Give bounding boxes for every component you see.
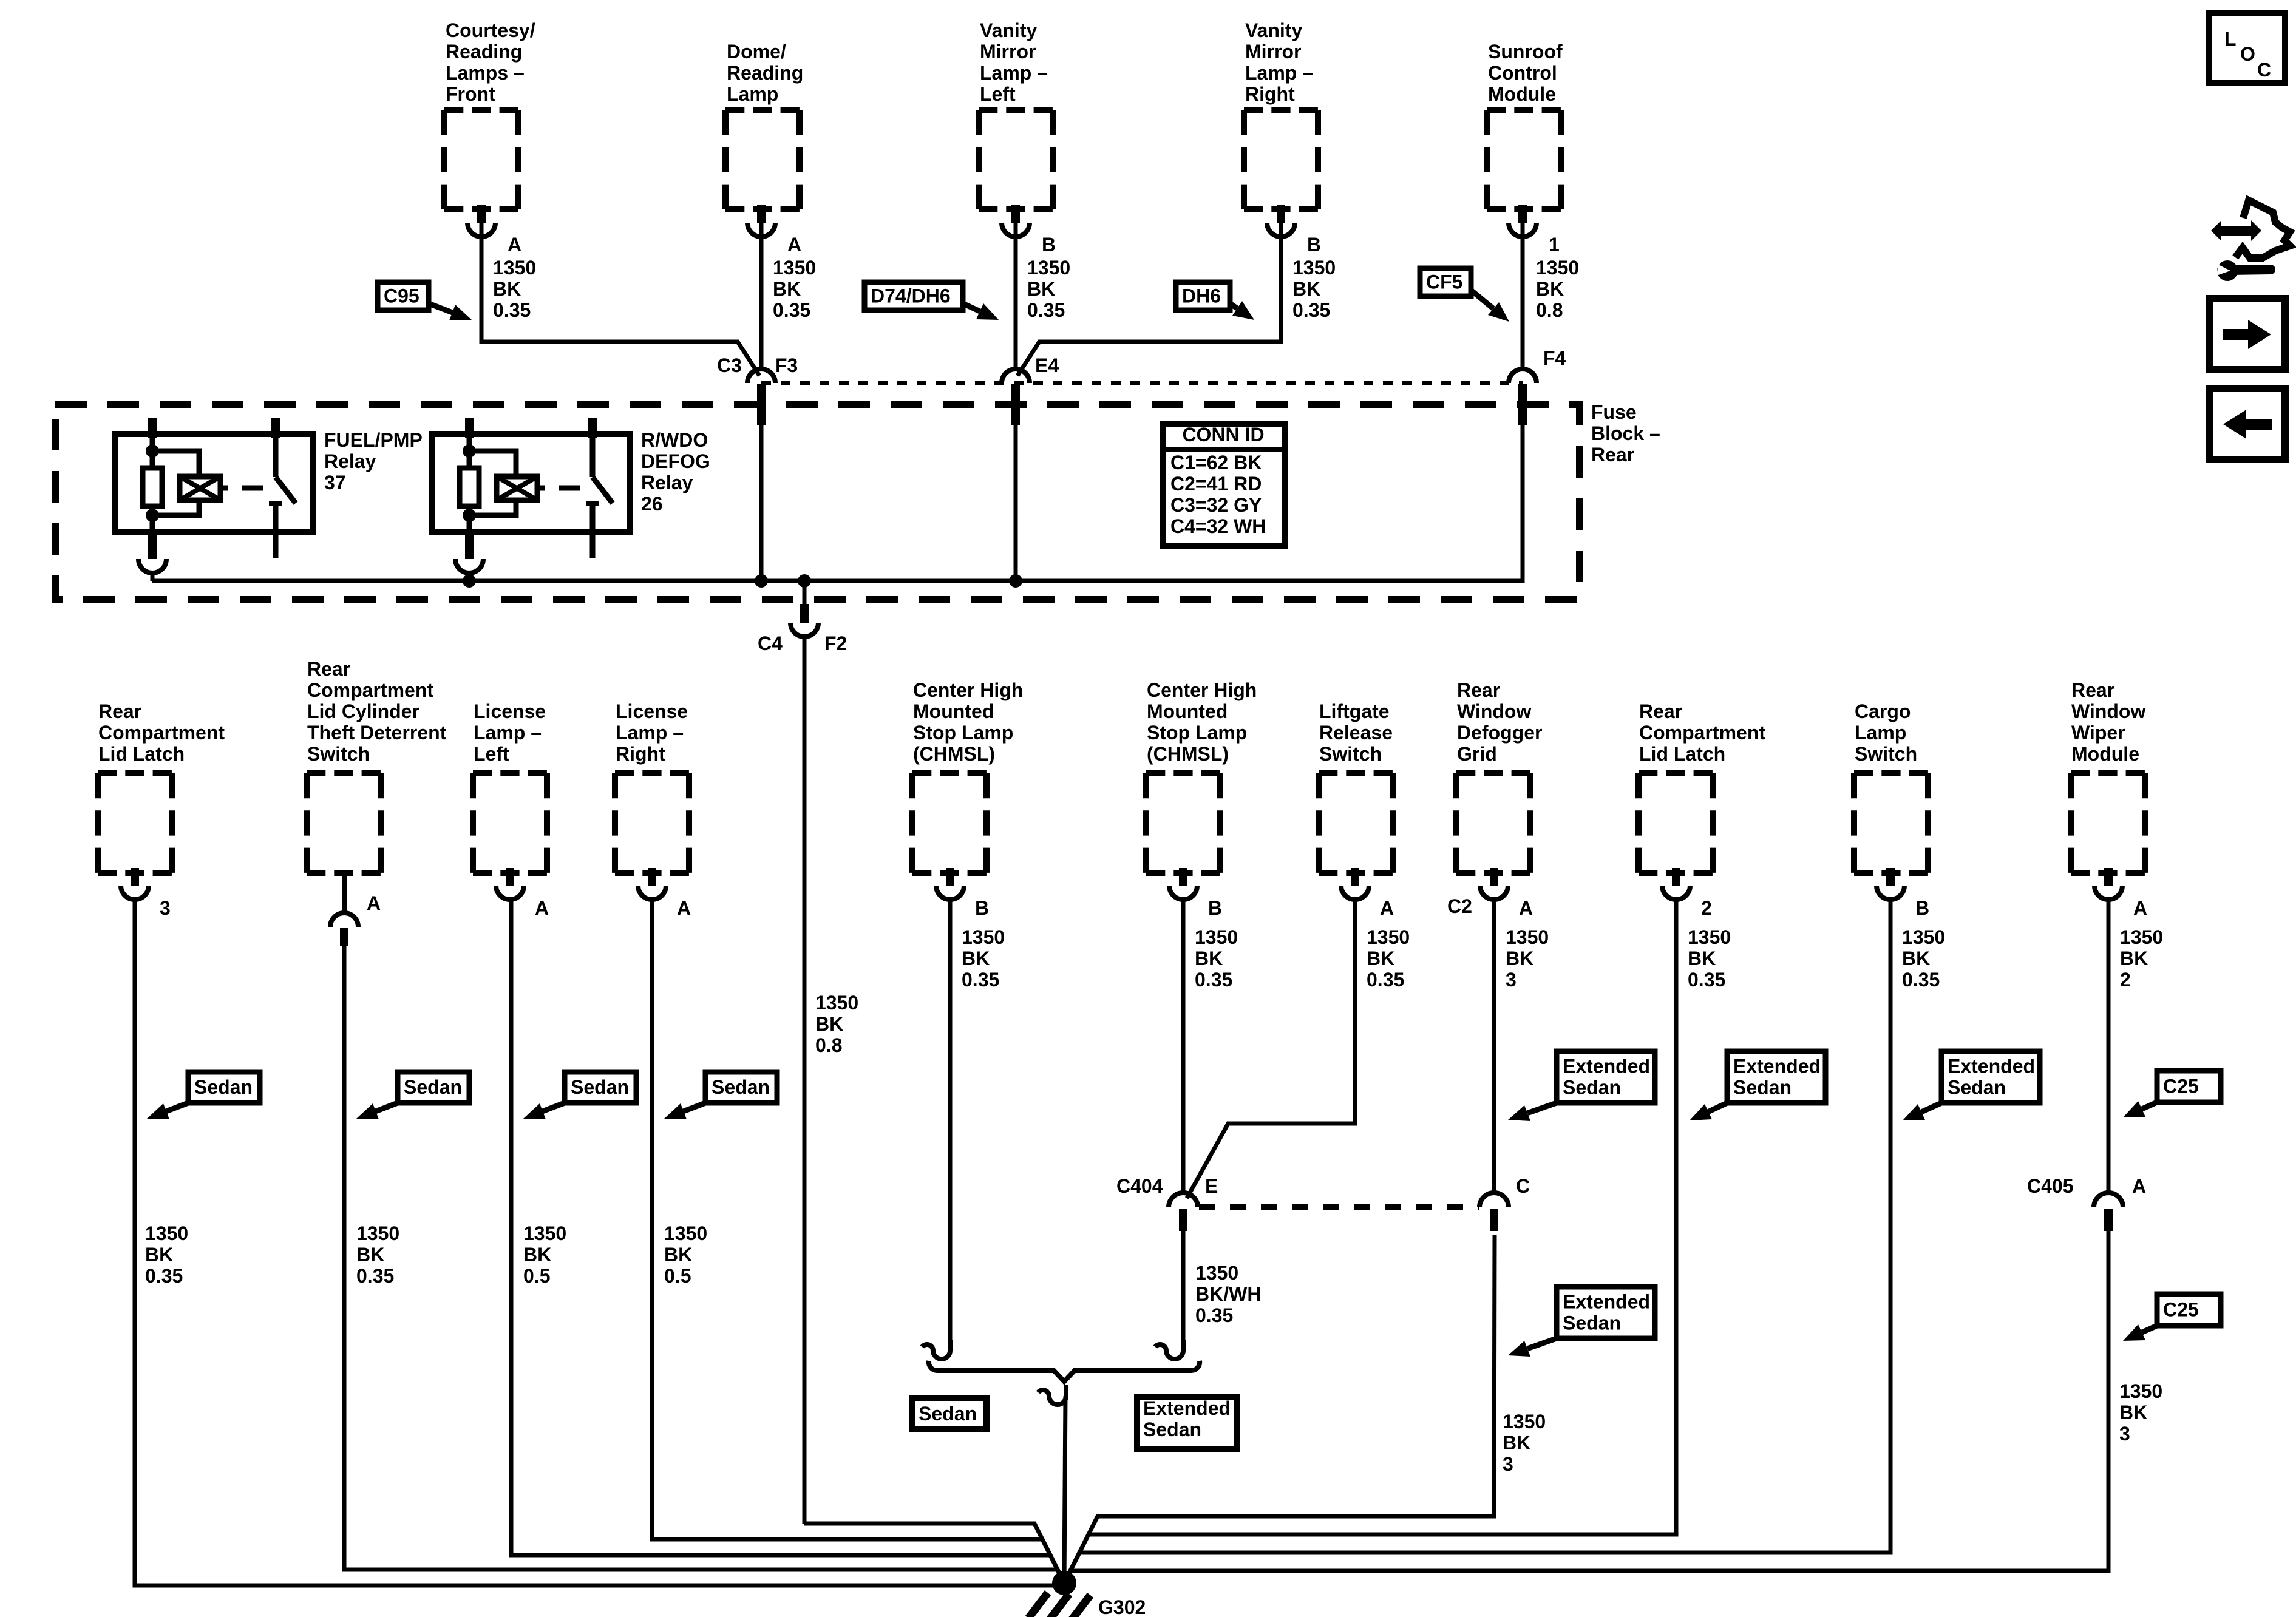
svg-text:3: 3 <box>1506 969 1517 991</box>
label 1350 BK 0.8 <box>815 992 858 1056</box>
splice pigtail BK/WH <box>1155 1340 1183 1359</box>
label C <box>1516 1175 1530 1197</box>
svg-text:3: 3 <box>2119 1423 2130 1445</box>
coil-switch dash of R/WDO DEFOG <box>559 486 580 491</box>
svg-text:Defogger: Defogger <box>1457 722 1542 744</box>
svg-text:Vanity: Vanity <box>1245 19 1302 41</box>
callout Extended Sedan <box>1508 1051 1655 1121</box>
svg-text:26: 26 <box>641 493 663 515</box>
label E4 <box>1035 354 1059 376</box>
svg-text:Extended: Extended <box>1563 1056 1650 1077</box>
svg-text:A: A <box>677 897 691 919</box>
icon LOC box <box>2209 13 2285 83</box>
svg-text:(CHMSL): (CHMSL) <box>913 743 995 765</box>
callout C25 <box>2123 1294 2221 1341</box>
svg-text:Lid Cylinder: Lid Cylinder <box>307 700 419 722</box>
connector pin 3 of Rear Compartment Lid Latch <box>121 868 149 900</box>
connector bail of R/WDO DEFOG relay <box>455 532 483 581</box>
svg-text:BK: BK <box>773 278 801 300</box>
component Rear Compartment Lid Latch 2 <box>1639 773 1713 873</box>
label 1350 BK 3 <box>2119 1380 2162 1445</box>
label C3 <box>717 354 742 376</box>
icon prev-page arrow box <box>2209 388 2285 459</box>
svg-text:Rear: Rear <box>307 658 350 680</box>
svg-text:0.35: 0.35 <box>1688 969 1725 991</box>
connector bail of FUEL/PMP relay <box>138 532 166 581</box>
connector pin A of Liftgate Release Switch <box>1341 868 1369 900</box>
label Rear Window Wiper Module <box>2071 679 2145 765</box>
svg-text:BK: BK <box>1688 947 1716 969</box>
svg-text:BK: BK <box>664 1244 692 1266</box>
svg-text:BK: BK <box>1506 947 1533 969</box>
svg-text:Extended: Extended <box>1143 1397 1231 1419</box>
component Sunroof Control Module <box>1487 110 1561 209</box>
svg-text:BK: BK <box>2120 947 2148 969</box>
connector C404 E <box>1169 1193 1198 1231</box>
svg-text:Sedan: Sedan <box>1733 1077 1792 1099</box>
label C2 <box>1447 895 1472 917</box>
svg-text:Compartment: Compartment <box>1639 722 1765 744</box>
label wire 1350 BK <box>1688 926 1731 991</box>
svg-text:L: L <box>2224 28 2237 50</box>
svg-text:Lamp: Lamp <box>1855 722 1906 744</box>
svg-text:1350: 1350 <box>1503 1411 1546 1432</box>
svg-text:Mounted: Mounted <box>1147 700 1228 722</box>
junction dot FUEL/PMP bottom <box>146 509 159 522</box>
svg-text:Sedan: Sedan <box>1143 1419 1201 1440</box>
svg-text:Stop Lamp: Stop Lamp <box>913 722 1013 744</box>
svg-text:0.35: 0.35 <box>962 969 999 991</box>
junction dot at R/WDO bail <box>463 574 476 588</box>
svg-text:DH6: DH6 <box>1182 285 1221 307</box>
svg-text:Right: Right <box>1245 83 1295 105</box>
label pin B <box>1208 897 1222 919</box>
svg-text:BK: BK <box>1503 1432 1530 1454</box>
label wire 1350 BK <box>145 1222 188 1287</box>
connector pin A of Dome/Reading Lamp <box>747 205 775 237</box>
svg-text:1350: 1350 <box>962 926 1005 948</box>
label Fuse Block - Rear <box>1591 401 1660 466</box>
svg-text:A: A <box>535 897 549 919</box>
svg-text:1350: 1350 <box>356 1222 399 1244</box>
label F3 <box>775 354 798 376</box>
label F2 <box>824 632 847 654</box>
callout Extended Sedan <box>1690 1051 1826 1120</box>
svg-text:0.35: 0.35 <box>773 299 810 321</box>
svg-text:BK: BK <box>1536 278 1564 300</box>
svg-text:Rear: Rear <box>1591 444 1634 466</box>
coil of FUEL/PMP relay <box>180 476 228 500</box>
table CONN ID box <box>1163 424 1285 546</box>
svg-text:1350: 1350 <box>1027 257 1070 279</box>
wire Defogger A to C <box>1492 898 1496 1194</box>
connector pin A of Rear Compartment Lid Cylinder Theft Deterrent Switch <box>330 913 358 946</box>
svg-text:0.35: 0.35 <box>1195 1304 1233 1326</box>
svg-text:Lamp: Lamp <box>727 83 778 105</box>
connector pin 2 of Rear Compartment Lid Latch 2 <box>1662 868 1690 900</box>
svg-text:37: 37 <box>324 472 346 493</box>
svg-text:Sedan: Sedan <box>194 1076 253 1098</box>
svg-text:3: 3 <box>1503 1453 1513 1475</box>
svg-text:1350: 1350 <box>493 257 536 279</box>
svg-text:0.35: 0.35 <box>1367 969 1404 991</box>
svg-text:BK: BK <box>2119 1402 2147 1423</box>
label wire 1350 BK <box>1292 257 1336 321</box>
label C404 <box>1116 1175 1163 1197</box>
svg-text:Lamp –: Lamp – <box>616 722 684 744</box>
wire CHMSL sedan B down <box>948 898 953 1340</box>
brace sedan/extended sedan <box>929 1361 1200 1381</box>
relay R/WDO DEFOG coil-side pin <box>465 418 474 438</box>
label wire 1350 BK <box>1506 926 1549 991</box>
label Cargo Lamp Switch <box>1855 700 1917 765</box>
label wire 1350 BK <box>1027 257 1070 321</box>
connector pin B of Vanity Mirror Lamp - Left <box>1002 205 1030 237</box>
svg-text:0.35: 0.35 <box>1902 969 1940 991</box>
component Dome/Reading Lamp <box>725 110 800 209</box>
svg-text:C404: C404 <box>1116 1175 1163 1197</box>
svg-text:Dome/: Dome/ <box>727 41 786 63</box>
svg-text:Compartment: Compartment <box>307 679 433 701</box>
component License Lamp - Right <box>615 773 689 873</box>
wire Liftgate A to C404 E <box>1187 898 1355 1198</box>
svg-text:Left: Left <box>474 743 509 765</box>
svg-text:CF5: CF5 <box>1426 271 1462 293</box>
svg-text:Compartment: Compartment <box>98 722 225 744</box>
coil branch of R/WDO DEFOG <box>469 451 516 515</box>
svg-text:0.35: 0.35 <box>356 1265 394 1287</box>
connector C4/F2 <box>790 581 818 643</box>
svg-text:1350: 1350 <box>815 992 858 1014</box>
wire Wiper A to C405 <box>2107 898 2111 1194</box>
wire Dome lamp A to F3 <box>759 223 764 371</box>
svg-text:BK: BK <box>815 1013 843 1035</box>
coil-switch dash of FUEL/PMP <box>242 486 263 491</box>
svg-text:C2: C2 <box>1447 895 1472 917</box>
svg-text:Extended: Extended <box>1733 1056 1821 1077</box>
label wire 1350 BK <box>1195 926 1238 991</box>
svg-text:B: B <box>1042 234 1056 256</box>
svg-text:Sedan: Sedan <box>1948 1077 2006 1099</box>
svg-text:Cargo: Cargo <box>1855 700 1911 722</box>
svg-text:Switch: Switch <box>307 743 370 765</box>
svg-text:A: A <box>787 234 801 256</box>
svg-text:1350: 1350 <box>1367 926 1410 948</box>
icon diagnostic outline <box>2235 200 2290 258</box>
label pin B <box>1307 234 1321 256</box>
wire Lid Latch 2 to G302 <box>1064 898 1676 1583</box>
label E <box>1205 1175 1218 1197</box>
svg-text:0.35: 0.35 <box>493 299 531 321</box>
junction dot at F3 drop <box>755 574 768 588</box>
label Courtesy/Reading Lamps - Front <box>446 19 535 105</box>
svg-text:Lid Latch: Lid Latch <box>98 743 185 765</box>
wire Rear Compartment Lid Cylinder Theft Deterrent Switch to connector <box>342 873 347 913</box>
svg-text:Liftgate: Liftgate <box>1319 700 1390 722</box>
callout D74/DH6 <box>864 282 999 320</box>
icon next-page arrow box <box>2209 299 2285 370</box>
component Rear Compartment Lid Latch <box>98 773 172 873</box>
junction dot R/WDO DEFOG bottom <box>463 509 476 522</box>
svg-text:C: C <box>1516 1175 1530 1197</box>
label License Lamp - Right <box>616 700 688 765</box>
label wire 1350 BK <box>773 257 816 321</box>
connector pin B of Cargo Lamp Switch <box>1877 868 1904 900</box>
wire Cargo Lamp B to G302 <box>1064 898 1890 1583</box>
label wire 1350 BK <box>523 1222 566 1287</box>
component Courtesy/Reading Lamps - Front <box>444 110 518 209</box>
svg-text:B: B <box>1208 897 1222 919</box>
svg-text:Mounted: Mounted <box>913 700 994 722</box>
label wire 1350 BK <box>1902 926 1945 991</box>
coil branch of FUEL/PMP <box>152 451 199 515</box>
connector C405 A <box>2094 1193 2123 1231</box>
svg-text:Left: Left <box>980 83 1016 105</box>
svg-text:0.35: 0.35 <box>1027 299 1065 321</box>
component Cargo Lamp Switch <box>1854 773 1928 873</box>
resistor of R/WDO DEFOG relay <box>460 468 479 506</box>
svg-text:F3: F3 <box>775 354 798 376</box>
svg-text:0.35: 0.35 <box>1195 969 1232 991</box>
svg-text:C3=32 GY: C3=32 GY <box>1170 494 1262 516</box>
label pin A <box>1380 897 1394 919</box>
connector pin A of Rear Window Wiper Module <box>2094 868 2122 900</box>
label pin A <box>677 897 691 919</box>
svg-text:Module: Module <box>2071 743 2139 765</box>
svg-text:Lid Latch: Lid Latch <box>1639 743 1725 765</box>
component Liftgate Release Switch <box>1319 773 1393 873</box>
ground G302 node <box>1052 1571 1076 1595</box>
callout Sedan <box>356 1072 469 1119</box>
connector C404 C <box>1479 1193 1509 1231</box>
svg-text:Sedan: Sedan <box>919 1403 977 1425</box>
svg-text:Sunroof: Sunroof <box>1488 41 1563 63</box>
svg-text:C2=41 RD: C2=41 RD <box>1170 473 1262 495</box>
svg-text:BK: BK <box>145 1244 173 1266</box>
wire Wiper C405 to G302 <box>1064 1231 2108 1583</box>
svg-text:1350: 1350 <box>523 1222 566 1244</box>
svg-text:CONN ID: CONN ID <box>1182 424 1264 446</box>
svg-text:C405: C405 <box>2027 1175 2074 1197</box>
svg-text:Reading: Reading <box>727 62 803 84</box>
label wire 1350 BK <box>493 257 536 321</box>
svg-text:A: A <box>2133 897 2147 919</box>
wire F2 down <box>803 643 807 1524</box>
svg-text:Sedan: Sedan <box>1563 1312 1621 1334</box>
label 1350 BK/WH 0.35 <box>1195 1262 1261 1326</box>
splice pigtail CHMSL sedan <box>922 1340 950 1359</box>
svg-text:BK/WH: BK/WH <box>1195 1283 1261 1305</box>
wire C404 E down (BK/WH) <box>1181 1231 1186 1340</box>
label Liftgate Release Switch <box>1319 700 1393 765</box>
label pin A <box>2133 897 2147 919</box>
label Rear Compartment Lid Cylinder Theft Deterrent Switch <box>307 658 447 765</box>
label pin A <box>367 892 381 914</box>
junction dot at F2 drop <box>798 574 811 588</box>
svg-text:Control: Control <box>1488 62 1557 84</box>
connector pin B of Center High Mounted Stop Lamp (CHMSL) sedan <box>936 868 964 900</box>
label wire 1350 BK <box>1367 926 1410 991</box>
junction dot R/WDO DEFOG top <box>463 444 476 458</box>
svg-text:1350: 1350 <box>145 1222 188 1244</box>
label Sunroof Control Module <box>1488 41 1563 105</box>
svg-text:Lamp –: Lamp – <box>474 722 542 744</box>
svg-text:BK: BK <box>356 1244 384 1266</box>
svg-text:(CHMSL): (CHMSL) <box>1147 743 1229 765</box>
fuse block - rear outline <box>55 404 1580 600</box>
label pin A <box>1519 897 1533 919</box>
connector pin B of Vanity Mirror Lamp - Right <box>1267 205 1295 237</box>
svg-text:1350: 1350 <box>1195 1262 1238 1284</box>
svg-text:BK: BK <box>1195 947 1223 969</box>
label Dome/Reading Lamp <box>727 41 803 105</box>
svg-text:Vanity: Vanity <box>980 19 1037 41</box>
svg-text:E4: E4 <box>1035 354 1059 376</box>
svg-text:R/WDO: R/WDO <box>641 429 708 451</box>
bus dotted connector row <box>761 381 1523 385</box>
svg-text:Right: Right <box>616 743 665 765</box>
svg-text:FUEL/PMP: FUEL/PMP <box>324 429 423 451</box>
label C405 <box>2027 1175 2074 1197</box>
svg-text:0.35: 0.35 <box>145 1265 183 1287</box>
svg-text:B: B <box>1307 234 1321 256</box>
callout DH6 <box>1176 282 1254 320</box>
svg-text:A: A <box>1519 897 1533 919</box>
label Center High Mounted Stop Lamp (CHMSL) extended sedan <box>1147 679 1257 765</box>
wire Vanity right B to E4 <box>1017 223 1281 376</box>
connector pin A of License Lamp - Right <box>638 868 666 900</box>
svg-text:Block –: Block – <box>1591 422 1660 444</box>
svg-text:Reading: Reading <box>446 41 522 63</box>
svg-text:A: A <box>2132 1175 2146 1197</box>
relay FUEL/PMP coil conductor <box>150 434 155 532</box>
connector F4 fuse block entry <box>1509 369 1537 425</box>
svg-text:B: B <box>1915 897 1929 919</box>
svg-text:A: A <box>508 234 521 256</box>
svg-text:1350: 1350 <box>1292 257 1336 279</box>
relay FUEL/PMP coil-side pin <box>148 418 157 438</box>
svg-text:Lamps –: Lamps – <box>446 62 525 84</box>
svg-text:BK: BK <box>1902 947 1930 969</box>
svg-text:C1=62 BK: C1=62 BK <box>1170 452 1262 473</box>
label G302 <box>1098 1596 1146 1617</box>
svg-text:C3: C3 <box>717 354 742 376</box>
label FUEL/PMP Relay 37 <box>324 429 423 493</box>
svg-text:C4: C4 <box>758 632 783 654</box>
label wire 1350 BK <box>2120 926 2163 991</box>
label pin B <box>975 897 989 919</box>
svg-text:BK: BK <box>962 947 990 969</box>
label pin 3 <box>160 897 171 919</box>
connector F3 fuse block entry <box>747 369 775 425</box>
ground G302 hatching <box>1028 1593 1090 1617</box>
connector pin 1 of Sunroof Control Module <box>1509 205 1537 237</box>
svg-text:0.8: 0.8 <box>1536 299 1563 321</box>
wire Theft Deterrent A to G302 <box>344 946 1064 1583</box>
svg-text:Center High: Center High <box>1147 679 1257 701</box>
svg-text:1350: 1350 <box>773 257 816 279</box>
svg-text:1350: 1350 <box>2120 926 2163 948</box>
svg-text:Module: Module <box>1488 83 1556 105</box>
svg-text:Front: Front <box>446 83 495 105</box>
svg-text:Sedan: Sedan <box>712 1076 770 1098</box>
callout Sedan <box>664 1072 777 1119</box>
wire Defogger C to G302 <box>1064 1235 1495 1583</box>
label Vanity Mirror Lamp - Right <box>1245 19 1313 105</box>
callout C25 <box>2123 1071 2221 1117</box>
svg-text:0.5: 0.5 <box>664 1265 691 1287</box>
label pin 1 <box>1549 234 1560 256</box>
component Rear Window Wiper Module <box>2071 773 2145 873</box>
svg-text:C95: C95 <box>384 285 419 307</box>
svg-text:A: A <box>1380 897 1394 919</box>
svg-text:O: O <box>2240 43 2255 65</box>
svg-text:1350: 1350 <box>1506 926 1549 948</box>
svg-text:3: 3 <box>160 897 171 919</box>
component Vanity Mirror Lamp - Left <box>979 110 1053 209</box>
svg-text:Switch: Switch <box>1319 743 1382 765</box>
switch of R/WDO DEFOG relay <box>586 418 613 558</box>
svg-text:Relay: Relay <box>324 450 376 472</box>
wire License Left A to G302 <box>511 898 1064 1583</box>
svg-text:1350: 1350 <box>1902 926 1945 948</box>
connector pin B of Center High Mounted Stop Lamp (CHMSL) extended sedan <box>1169 868 1197 900</box>
svg-text:B: B <box>975 897 989 919</box>
svg-text:Mirror: Mirror <box>980 41 1036 63</box>
resistor of FUEL/PMP relay <box>143 468 162 506</box>
svg-text:0.8: 0.8 <box>815 1034 842 1056</box>
connector E4 fuse block entry <box>1002 369 1030 425</box>
wire CHMSL extended B to C404 E <box>1181 898 1186 1194</box>
svg-text:Wiper: Wiper <box>2071 722 2125 744</box>
svg-text:C4=32 WH: C4=32 WH <box>1170 515 1266 537</box>
component Rear Window Defogger Grid <box>1456 773 1530 873</box>
svg-text:C: C <box>2257 59 2271 81</box>
svg-text:Theft Deterrent: Theft Deterrent <box>307 722 447 744</box>
svg-text:Fuse: Fuse <box>1591 401 1637 423</box>
svg-text:Rear: Rear <box>2071 679 2114 701</box>
label wire 1350 BK <box>962 926 1005 991</box>
svg-text:1350: 1350 <box>2119 1380 2162 1402</box>
wire splice to G302 <box>1064 1396 1065 1583</box>
label 1350 BK 3 <box>1503 1411 1546 1475</box>
label pin 2 <box>1701 897 1712 919</box>
svg-text:F2: F2 <box>824 632 847 654</box>
svg-text:Courtesy/: Courtesy/ <box>446 19 535 41</box>
svg-text:Grid: Grid <box>1457 743 1497 765</box>
svg-text:Window: Window <box>1457 700 1531 722</box>
component Rear Compartment Lid Cylinder Theft Deterrent Switch <box>307 773 381 873</box>
splice pigtail below brace <box>1038 1385 1066 1405</box>
dashed link C404 to C <box>1199 1204 1479 1210</box>
svg-text:BK: BK <box>1027 278 1055 300</box>
label R/WDO DEFOG Relay 26 <box>641 429 710 515</box>
label C4 <box>758 632 783 654</box>
callout Extended Sedan (bottom) <box>1137 1397 1237 1449</box>
label pin A <box>787 234 801 256</box>
label Rear Window Defogger Grid <box>1457 679 1542 765</box>
wire Sunroof 1 to F4 <box>1521 223 1525 371</box>
bus fuse block internal ground <box>152 384 1523 581</box>
svg-text:E: E <box>1205 1175 1218 1197</box>
wire License Right A to G302 <box>652 898 1064 1583</box>
label Vanity Mirror Lamp - Left <box>980 19 1048 105</box>
callout Extended Sedan <box>1903 1051 2040 1120</box>
label Rear Compartment Lid Latch <box>98 700 225 765</box>
label CONN ID entries <box>1170 452 1266 537</box>
svg-text:BK: BK <box>1292 278 1320 300</box>
svg-text:C25: C25 <box>2163 1076 2199 1097</box>
